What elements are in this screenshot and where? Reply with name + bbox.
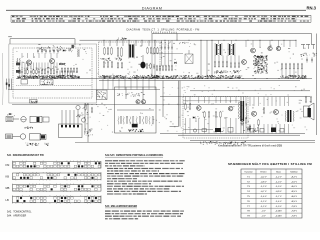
driver box dashed (183, 97, 248, 139)
output emitter resistors (245, 117, 247, 124)
oscillator coil L2 (77, 50, 80, 57)
transistor T8 AF (141, 100, 145, 104)
svg-text:-1,2 V: -1,2 V (261, 206, 267, 208)
AF transformer core (132, 124, 138, 128)
FM box lower boxes (21, 80, 28, 84)
switch strip MB (6, 184, 102, 193)
pinout row2 labels (25, 143, 48, 146)
transistor T2 oscillator (50, 59, 55, 64)
svg-text:DIAGRAM TEGN.CT 1 SPILLING: DIAGRAM TEGN.CT 1 SPILLING PORTABLE - FM (127, 28, 200, 32)
svg-text:T4: T4 (247, 191, 250, 193)
mixer cap pair rows (161, 45, 173, 50)
switch strip LB (6, 195, 102, 204)
right resistor bank (281, 63, 303, 70)
transistor T12 output (274, 110, 279, 115)
right upper caps (306, 57, 308, 62)
scan fold streak left (1, 53, 4, 105)
ground bus left (8, 89, 160, 91)
svg-text:-1,3 V: -1,3 V (276, 186, 282, 188)
wire right edge vertical (316, 34, 318, 97)
pinout row2 case (30, 134, 41, 140)
AM converter verticals (201, 40, 212, 78)
bottom right bars (250, 128, 284, 133)
wire battery drop left (240, 97, 242, 134)
IF resistors R11-R14 (104, 47, 106, 55)
wire supply rail (80, 39, 297, 41)
svg-text:SPÆNDINGER MÅLT FRA ⊖BATTER: SPÆNDINGER MÅLT FRA ⊖BATTERI I STILLING … (228, 161, 312, 166)
wire right edge drop (311, 34, 313, 45)
transistor T5 (268, 46, 272, 50)
AM under-transformer labels (214, 70, 228, 74)
svg-text:T9: T9 (247, 216, 250, 218)
svg-text:-0,2 V: -0,2 V (261, 176, 267, 178)
IF lower boxes (97, 90, 108, 100)
svg-text:5A4. AFBRYDER: 5A4. AFBRYDER (7, 215, 26, 218)
wire scale riser (151, 34, 153, 41)
diode D5 (174, 62, 176, 64)
svg-text:-8,5 V: -8,5 V (291, 191, 297, 193)
svg-text:-1,4 V: -1,4 V (276, 201, 282, 203)
FM tuner outer box (9, 44, 97, 103)
tuning indicator circle (242, 60, 247, 65)
svg-text:-0,9 V: -0,9 V (276, 191, 282, 193)
svg-text:-1,2 V: -1,2 V (261, 201, 267, 203)
transistor T7 AF (136, 100, 140, 104)
AM IF transformer MF3 (228, 43, 235, 56)
wire mid riser (162, 81, 164, 117)
parts list strip (11, 15, 311, 22)
svg-text:T7: T7 (247, 206, 250, 208)
svg-text:T3: T3 (247, 186, 250, 188)
pinout row2 connector block (40, 134, 46, 139)
svg-text:-7,8 V: -7,8 V (291, 216, 297, 218)
svg-text:FM: FM (6, 163, 10, 167)
svg-text:Kollektor: Kollektor (290, 171, 298, 174)
wire mid link (152, 53, 183, 55)
svg-text:-1,0 V: -1,0 V (276, 181, 282, 183)
speaker (304, 103, 315, 120)
output transformer (285, 110, 294, 122)
mid labels row (152, 75, 240, 79)
wire left drops (6, 79, 8, 90)
AF box outline (115, 87, 157, 133)
wire AGC line (190, 90, 310, 92)
transistor T11 output (252, 111, 257, 116)
wire audio riser pair (170, 81, 179, 127)
svg-text:-7,8 V: -7,8 V (291, 211, 297, 213)
transistor T6 (276, 46, 280, 50)
FM box top right parts (72, 45, 74, 48)
svg-text:RN.3: RN.3 (306, 6, 316, 11)
wire audio bottom rails (160, 133, 305, 135)
svg-text:T6: T6 (247, 201, 250, 203)
svg-text:-0,16V: -0,16V (275, 216, 282, 218)
svg-text:-8,6 V: -8,6 V (291, 196, 297, 198)
pinout row2 plug symbol (6, 134, 18, 139)
main emitter bus (16, 78, 312, 80)
scattered value labels (16, 44, 311, 133)
battery symbol (241, 120, 244, 125)
switch strip FM (6, 161, 102, 170)
AF box internal wires (117, 87, 154, 110)
svg-text:-1,2 V: -1,2 V (276, 176, 282, 178)
pinout row1 case (30, 116, 42, 122)
IF mid resistors (103, 61, 105, 68)
AF coil filter row (118, 117, 154, 125)
AF labels (128, 129, 144, 132)
text paragraphs (105, 160, 185, 194)
pinout row1 label (25, 127, 34, 129)
pinout row1 plug symbol (6, 117, 19, 122)
svg-text:-8,2 V: -8,2 V (291, 176, 297, 178)
pinout row1 transistor circle (21, 117, 26, 122)
volume control pot (85, 103, 87, 110)
svg-text:5A2-5A5 OMSKIFTERE PORTABLE-L: 5A2-5A5 OMSKIFTERE PORTABLE-LUXEMBOURG (105, 154, 163, 157)
voltage table (241, 169, 302, 218)
FM stage value labels (17, 75, 60, 79)
svg-text:Kredsløbstrømmen i TR-TR juste: Kredsløbstrømmen i TR-TR justeres til 6m… (218, 143, 282, 147)
driver resistors (185, 103, 187, 110)
svg-text:-7,8 V: -7,8 V (291, 206, 297, 208)
transistor T4 (251, 48, 256, 53)
pinout row2 transistor circle (20, 134, 25, 139)
detector diode cluster (257, 56, 259, 58)
svg-text:Transistor: Transistor (244, 171, 253, 174)
IF section parts right (147, 47, 149, 54)
junction dots (25, 40, 304, 79)
FM decoupling parts right (61, 67, 78, 73)
wire dial line left (10, 38, 75, 40)
svg-text:-1,4 V: -1,4 V (261, 196, 267, 198)
FM tuner shield dashed box (13, 48, 92, 98)
svg-text:-1,7 V: -1,7 V (276, 196, 282, 198)
svg-text:Emitter: Emitter (261, 171, 267, 174)
svg-text:-0,16V: -0,16V (275, 211, 282, 213)
svg-text:5A2. TONEKONTROL: 5A2. TONEKONTROL (7, 211, 32, 214)
wire top bus to right edge (152, 33, 312, 35)
svg-text:T5: T5 (247, 196, 250, 198)
resistor row FM stage (19, 69, 58, 75)
transistor T3 IF amp (140, 62, 145, 69)
earphone jack (76, 105, 80, 109)
svg-text:T1: T1 (247, 176, 250, 178)
transistor T1 mixer (27, 60, 32, 65)
wire lower rail (160, 96, 310, 98)
wire antenna stub (9, 39, 11, 44)
driver transformer (239, 101, 247, 121)
input diode D2 (63, 49, 65, 51)
band coils right (301, 45, 315, 50)
tuning gang C20 (185, 50, 193, 64)
svg-text:LB: LB (6, 198, 9, 202)
svg-text:5A1 KREDSLØBSKONTAKT 555: 5A1 KREDSLØBSKONTAKT 555 (7, 154, 45, 157)
left feeder blobs (6, 83, 8, 86)
AM stage resistors (214, 61, 240, 68)
svg-text:-0,7 V: -0,7 V (261, 191, 267, 193)
AM IF transformer MF2 (215, 43, 222, 56)
antenna coil L1 (16, 58, 19, 63)
wire schematic bottom border (75, 141, 315, 143)
svg-text:-0,8 V: -0,8 V (261, 181, 267, 183)
ratio detector parts (60, 71, 73, 78)
secondary bus (99, 80, 300, 82)
svg-text:T2: T2 (247, 181, 250, 183)
FM component junction dots (22, 68, 58, 71)
IF section dashed box (99, 42, 161, 78)
coupling parts left audio (91, 107, 93, 113)
switch strip KB (6, 172, 102, 181)
svg-text:T8: T8 (247, 211, 250, 213)
IF rail drops (104, 40, 155, 46)
svg-text:KB: KB (6, 175, 10, 179)
trimmer row C1-C6 (37, 49, 59, 54)
supply label 6.3V (117, 38, 126, 41)
IF transformer MF1 (129, 44, 134, 59)
transistor T9 driver (197, 106, 202, 111)
IF labels (100, 58, 122, 61)
svg-text:-0 V: -0 V (261, 211, 266, 213)
label box LM (30, 99, 38, 103)
dial scale ticks (152, 31, 177, 34)
svg-text:Basis: Basis (276, 172, 281, 174)
pinout row1 case end (43, 117, 49, 122)
wire dial drop (74, 39, 76, 45)
transistor T10 (228, 106, 233, 111)
svg-text:-0 V: -0 V (261, 216, 266, 218)
svg-text:MB: MB (6, 186, 10, 190)
diode cluster D1 (59, 63, 61, 65)
wire volume drop pair (84, 103, 86, 134)
svg-text:-8,0 V: -8,0 V (291, 186, 297, 188)
svg-text:5A3 MELLEMFREKVENSER: 5A3 MELLEMFREKVENSER (105, 205, 137, 208)
svg-text:-8,5 V: -8,5 V (291, 201, 297, 203)
page header rule (6, 9, 306, 11)
bottom row parts audio (193, 128, 233, 133)
tone network box (59, 124, 83, 138)
right lower parts (305, 96, 307, 103)
dashed trim line (16, 85, 92, 87)
svg-text:-2,5 V: -2,5 V (291, 181, 297, 183)
wire texture verticals (20, 40, 303, 133)
svg-text:-1,2 V: -1,2 V (261, 186, 267, 188)
svg-text:-1,3 V: -1,3 V (276, 206, 282, 208)
svg-text:DIAGRAM: DIAGRAM (142, 6, 163, 10)
wire below FM box (12, 104, 240, 106)
coupling diode (193, 116, 195, 118)
